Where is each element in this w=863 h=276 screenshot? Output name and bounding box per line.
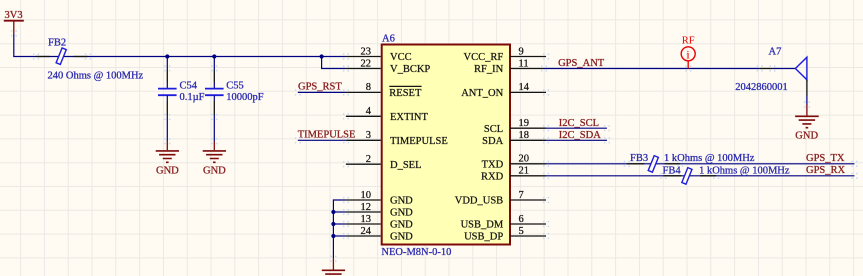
ferrite bead FB2 pins [36,56,88,58]
pin 11 RF_IN [474,58,544,75]
pin 4 EXTINT [346,106,429,123]
wire GND bus left [333,200,346,259]
svg-text:3V3: 3V3 [5,10,23,21]
pin 10 GND [346,190,413,207]
svg-text:21: 21 [519,166,530,177]
wire GND spur pin 13 [333,223,346,225]
svg-text:240 Ohms @ 100MHz: 240 Ohms @ 100MHz [48,71,144,82]
pin 13 GND [346,214,413,231]
svg-text:EXTINT: EXTINT [390,112,428,123]
svg-text:14: 14 [519,82,530,93]
svg-text:GPS_RST: GPS_RST [298,81,342,92]
svg-text:10000pF: 10000pF [226,92,263,103]
svg-text:C54: C54 [180,80,198,91]
svg-text:RXD: RXD [481,171,504,182]
pin 24 GND [346,226,413,243]
ground IC [322,259,345,276]
wire RXD to GPS_RX [546,175,854,177]
svg-text:8: 8 [366,82,371,93]
pin 9 VCC_RF [464,46,546,63]
ground antenna [795,105,819,142]
svg-text:GPS_RX: GPS_RX [806,165,846,176]
svg-text:18: 18 [519,130,530,141]
svg-text:FB4: FB4 [663,166,682,177]
svg-text:GPS_ANT: GPS_ANT [558,58,605,69]
svg-text:FB3: FB3 [630,153,648,164]
wire GND spur pin 12 [333,211,346,213]
antenna A7 pin [760,68,773,70]
svg-text:2042860001: 2042860001 [735,82,788,93]
svg-text:0.1µF: 0.1µF [180,92,205,103]
ferrite bead FB3 [648,156,658,173]
wire I2C_SDA [546,139,607,141]
svg-text:SDA: SDA [482,136,503,147]
svg-text:VCC_RF: VCC_RF [464,52,504,63]
IC A6 body [382,45,510,245]
wire V_BCKP branch [322,57,346,69]
svg-text:V_BCKP: V_BCKP [390,64,430,75]
svg-text:FB2: FB2 [48,38,66,49]
svg-text:RF_IN: RF_IN [474,64,504,75]
svg-text:1 kOhms @ 100MHz: 1 kOhms @ 100MHz [664,153,755,164]
pin 7 VDD_USB [455,190,546,207]
svg-text:TIMEPULSE: TIMEPULSE [390,136,448,147]
wire to antenna apex [772,68,795,70]
svg-text:19: 19 [519,118,530,129]
svg-text:12: 12 [361,202,372,213]
svg-text:RESET: RESET [389,88,422,99]
svg-text:GND: GND [390,232,413,243]
svg-text:22: 22 [361,58,372,69]
junction at C55 [212,54,216,58]
pin 19 SCL [484,118,546,135]
svg-text:D_SEL: D_SEL [390,160,422,171]
svg-text:GND: GND [390,208,413,219]
svg-text:7: 7 [519,190,524,201]
junction at V_BCKP branch [320,54,324,58]
junction at C54 [165,54,169,58]
svg-text:NEO-M8N-0-10: NEO-M8N-0-10 [381,247,451,258]
svg-text:20: 20 [519,154,530,165]
svg-text:9: 9 [519,46,524,57]
svg-text:23: 23 [361,46,372,57]
svg-text:USB_DM: USB_DM [461,220,504,231]
antenna lower pin [806,80,808,96]
svg-text:C55: C55 [226,80,244,91]
pin 12 GND [346,202,413,219]
ground C54 [156,141,179,176]
svg-text:10: 10 [361,190,372,201]
power port 3V3 [4,10,24,33]
capacitor C55 [205,57,224,118]
wire C54 to ground [166,117,168,141]
RF directive [681,36,695,69]
ferrite bead FB3 pins [627,163,680,165]
svg-text:6: 6 [519,214,524,225]
wire GPS_RST [298,91,346,93]
pin 18 SDA [482,130,546,147]
ground C55 [203,141,226,176]
svg-text:USB_DP: USB_DP [464,232,503,243]
svg-text:4: 4 [366,106,372,117]
junction at pin 24 [331,234,335,238]
pin 22 V_BCKP [346,58,431,75]
wire C55 to ground [213,117,215,141]
wire TXD to GPS_TX [546,163,854,165]
pin 3 TIMEPULSE [346,130,448,147]
pin 5 USB_DP [464,226,546,243]
wire TIMEPULSE [298,139,346,141]
svg-text:11: 11 [519,58,529,69]
pin 14 ANT_ON [461,82,546,99]
svg-text:TXD: TXD [482,159,504,170]
svg-text:A7: A7 [769,46,782,57]
junction at pin 12 [331,210,335,214]
svg-text:3: 3 [366,130,371,141]
svg-text:2: 2 [366,154,371,165]
svg-text:GND: GND [795,130,818,141]
pin 8 RESET [346,82,422,99]
svg-text:1 kOhms @ 100MHz: 1 kOhms @ 100MHz [699,166,790,177]
ferrite bead FB4 [682,168,692,185]
pin 20 TXD [482,154,546,171]
svg-text:GND: GND [203,166,226,177]
svg-text:GND: GND [156,166,179,177]
svg-text:TIMEPULSE: TIMEPULSE [298,129,356,140]
wire GND spur pin 24 [333,235,346,237]
svg-text:I2C_SCL: I2C_SCL [559,118,599,129]
wire I2C_SCL [546,127,607,129]
svg-text:ANT_ON: ANT_ON [461,88,503,99]
pin 2 D_SEL [346,154,422,171]
svg-text:13: 13 [361,214,372,225]
capacitor C54 [158,57,177,118]
svg-text:I2C_SDA: I2C_SDA [559,130,601,141]
svg-text:GND: GND [390,196,413,207]
svg-text:GPS_TX: GPS_TX [806,153,845,164]
ferrite bead FB4 pins [663,175,716,177]
svg-text:SCL: SCL [484,124,503,135]
pin 21 RXD [481,166,546,183]
svg-text:A6: A6 [382,34,395,45]
svg-text:24: 24 [361,226,372,237]
svg-text:5: 5 [519,226,524,237]
wire GPS_ANT [544,68,760,70]
svg-text:RF: RF [682,36,695,47]
svg-text:VCC: VCC [390,52,412,63]
svg-text:GND: GND [390,220,413,231]
wire 3V3 down and right to FB2 [14,33,346,56]
svg-text:VDD_USB: VDD_USB [455,196,503,207]
ferrite bead FB2 [56,48,66,65]
antenna A7 [795,57,807,80]
pin 6 USB_DM [461,214,546,231]
pin 23 VCC [346,46,412,63]
wire antenna to ground [806,96,808,105]
junction at pin 13 [331,222,335,226]
